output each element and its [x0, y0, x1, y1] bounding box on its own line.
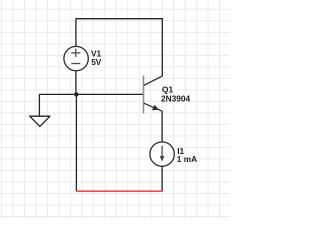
svg-text:5V: 5V: [91, 57, 102, 67]
svg-text:1 mA: 1 mA: [177, 154, 197, 164]
svg-text:2N3904: 2N3904: [161, 94, 190, 104]
